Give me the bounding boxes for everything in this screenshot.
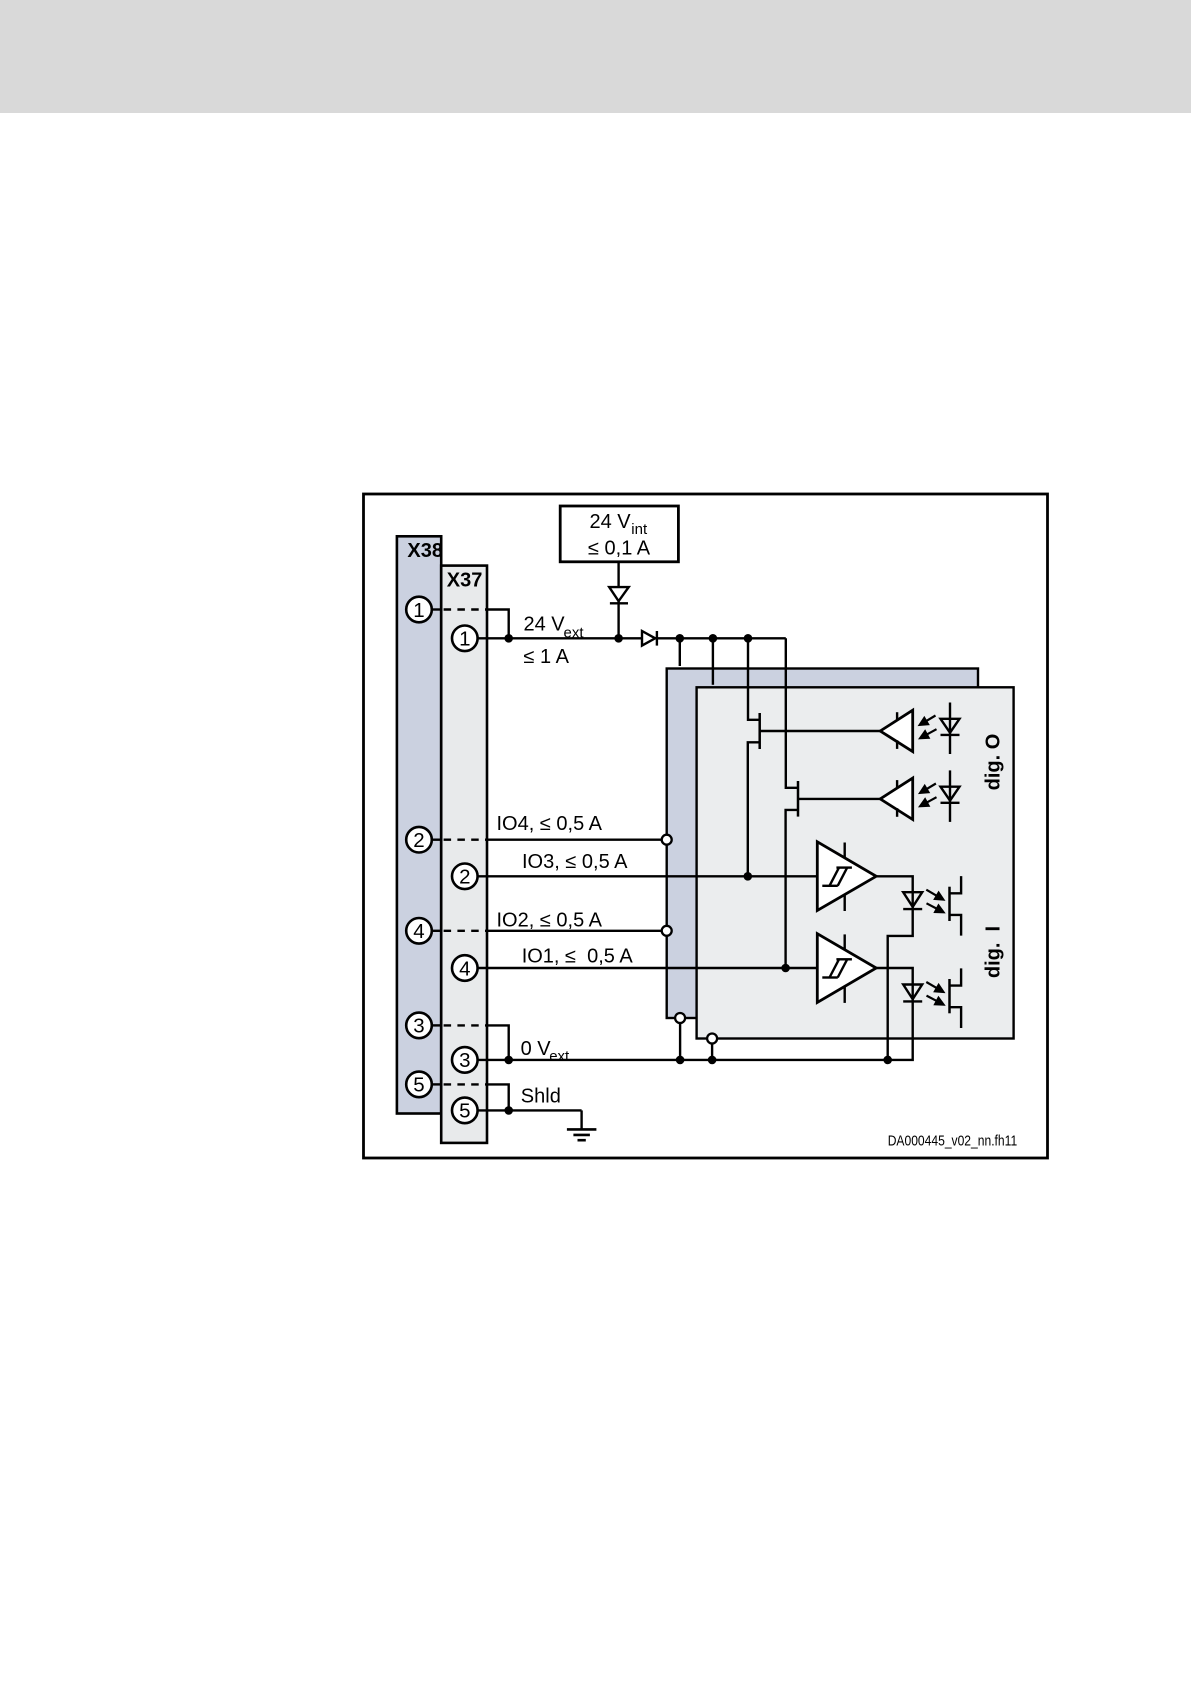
label X38 [407,540,443,562]
label Shld [521,1086,561,1108]
wire X38 pin5 dashed link [432,1083,487,1085]
node IO2 at dig.O box edge [662,926,672,936]
phototransistor, dig.I ch.1 [950,876,962,936]
junction 0V return A [676,1056,685,1065]
junction on 24Vext at X38 tie-in [504,634,513,643]
wire U1 output to opto LED1 [876,876,913,1060]
pin X38-1 [406,597,432,623]
wire Shld rail [478,1109,582,1111]
svg-text:≤ 0,1 A: ≤ 0,1 A [588,538,651,560]
page header band [0,0,1191,113]
wire X38 pin1 dashed link to X37 [432,608,487,610]
opto LED, dig.O ch.1 [941,703,960,755]
label IO4 [497,813,603,835]
wire drop 24Vext to dig.O box pin [679,638,681,666]
junction 0V return B [708,1056,717,1065]
svg-text:5: 5 [413,1074,424,1097]
module box dig.O (blue shaded) [667,669,978,1019]
junction IO3 / Q1 source [744,872,753,881]
junction 0V at X38 tie-in [504,1056,513,1065]
svg-text:0 V: 0 V [521,1038,552,1060]
Schmitt trigger U2 (input stage, IO1) [817,934,876,1003]
wire IO2 from X38 pin4 [432,930,662,932]
junction 24Vext drop B [709,634,718,643]
caption DA000445_v02_nn.fh11 [888,1133,1018,1150]
wire drop 24Vext to dig.I box pin [712,638,714,685]
node return at dig.I box edge [707,1034,717,1044]
Schmitt trigger U1 (input stage, IO3) [817,842,876,911]
ground symbol [567,1129,597,1140]
label X37 [447,570,483,592]
pin X37-4 [452,955,478,981]
wire X38 pin5 elbow to shield rail [487,1084,509,1110]
pin X37-5 [452,1098,478,1124]
diode D2 (series protection) [642,631,657,646]
svg-text:X37: X37 [447,570,483,592]
svg-text:ext: ext [564,625,585,642]
svg-text:3: 3 [459,1049,470,1072]
junction 24Vext drop C (Q1 gate feed) [744,634,753,643]
svg-text:4: 4 [459,957,470,980]
svg-text:24 V: 24 V [590,511,632,533]
wire Shld to ground [580,1110,582,1129]
svg-text:dig. I: dig. I [982,926,1004,978]
label IO3 [522,851,628,873]
light arrows into detector, dig.O ch.1 [919,716,937,739]
svg-text:5: 5 [459,1100,470,1123]
diode D1 (from internal supply) [609,587,629,603]
light arrows to phototransistor, dig.I ch.1 [926,890,944,913]
photodetector triangle, dig.O ch.2 [880,778,913,819]
opto LED input, dig.I ch.2 [903,985,922,1002]
node return at dig.O box edge [675,1013,685,1023]
connector X38 body [397,536,441,1113]
svg-text:DA000445_v02_nn.fh11: DA000445_v02_nn.fh11 [888,1133,1018,1150]
svg-text:2: 2 [459,866,470,889]
diagram frame [364,494,1048,1158]
svg-text:4: 4 [413,920,424,943]
phototransistor, dig.I ch.2 [950,968,962,1028]
svg-text:dig. O: dig. O [982,734,1004,791]
wire Q1 drain to LED driver 1 [760,730,881,732]
label 24 Vint [590,511,648,538]
pin X38-3 [406,1013,432,1039]
wire IO4 from X38 pin2 [432,839,662,841]
pin X38-2 [406,827,432,853]
svg-text:≤ 1 A: ≤ 1 A [524,646,570,668]
svg-text:ext: ext [549,1048,570,1065]
wire 0 Vext rail [478,1059,888,1061]
opto LED input, dig.I ch.1 [903,892,922,909]
svg-text:3: 3 [413,1015,424,1038]
label dig. I [982,926,1004,978]
junction Shld at X38 tie-in [504,1106,513,1115]
svg-text:1: 1 [459,628,470,651]
svg-text:Shld: Shld [521,1086,561,1108]
module box dig.I (gray shaded) [697,687,1014,1038]
svg-text:IO4, ≤ 0,5 A: IO4, ≤ 0,5 A [497,813,603,835]
pin X37-3 [452,1047,478,1073]
wire from 24Vint box to diode D1 [617,562,619,639]
label IO2 [497,910,603,932]
light arrows into detector, dig.O ch.2 [919,784,937,807]
opto LED, dig.O ch.2 [941,770,960,822]
label 0 Vext [521,1038,570,1065]
svg-text:2: 2 [413,829,424,852]
wire X38 pin3 elbow to 0V rail [487,1025,509,1060]
wire dig.O box return to 0V rail [679,1018,681,1060]
svg-text:IO1, ≤ 0,5 A: IO1, ≤ 0,5 A [522,945,634,967]
wire Q2 drain to LED driver 2 [798,798,880,800]
junction 0V / opto LED returns [883,1056,892,1065]
transistor Q1 (high-side switch, dig.O ch.1) [748,638,760,876]
wire U2 output to opto LED2 [876,968,913,1060]
connector X37 body [441,566,487,1143]
label IO1 [522,945,634,967]
label <= 0,1 A [588,538,651,560]
label <= 1 A [524,646,570,668]
pin X37-1 [452,626,478,652]
pin X38-5 [406,1072,432,1098]
svg-text:1: 1 [413,599,424,622]
wire 24Vext rail [478,637,786,639]
wire dig.I box return to 0V rail [711,1039,713,1060]
wire X38 pin1 elbow down to 24Vext rail [487,610,509,639]
transistor Q2 (high-side switch, dig.O ch.2) [786,638,798,968]
label dig. O [982,734,1004,791]
label 24 Vext [524,614,585,642]
junction 24Vext / D1 [614,634,623,643]
svg-text:24 V: 24 V [524,614,566,636]
svg-text:X38: X38 [407,540,443,562]
junction IO1 / Q2 source [781,964,790,973]
node IO4 at dig.O box edge [662,835,672,845]
wire X38 pin3 dashed link [432,1024,487,1026]
photodetector triangle, dig.O ch.1 [880,710,913,751]
svg-text:int: int [631,521,648,538]
pin X37-2 [452,864,478,890]
light arrows to phototransistor, dig.I ch.2 [926,982,944,1005]
svg-text:IO2, ≤ 0,5 A: IO2, ≤ 0,5 A [497,910,603,932]
wire IO1 from X37 pin4 to Schmitt U2 [478,967,818,969]
junction 24Vext drop A [676,634,685,643]
voltage source box 24 Vint [560,506,678,562]
pin X38-4 [406,918,432,944]
svg-text:IO3, ≤ 0,5 A: IO3, ≤ 0,5 A [522,851,628,873]
wire IO3 from X37 pin2 to Schmitt U1 [478,875,818,877]
